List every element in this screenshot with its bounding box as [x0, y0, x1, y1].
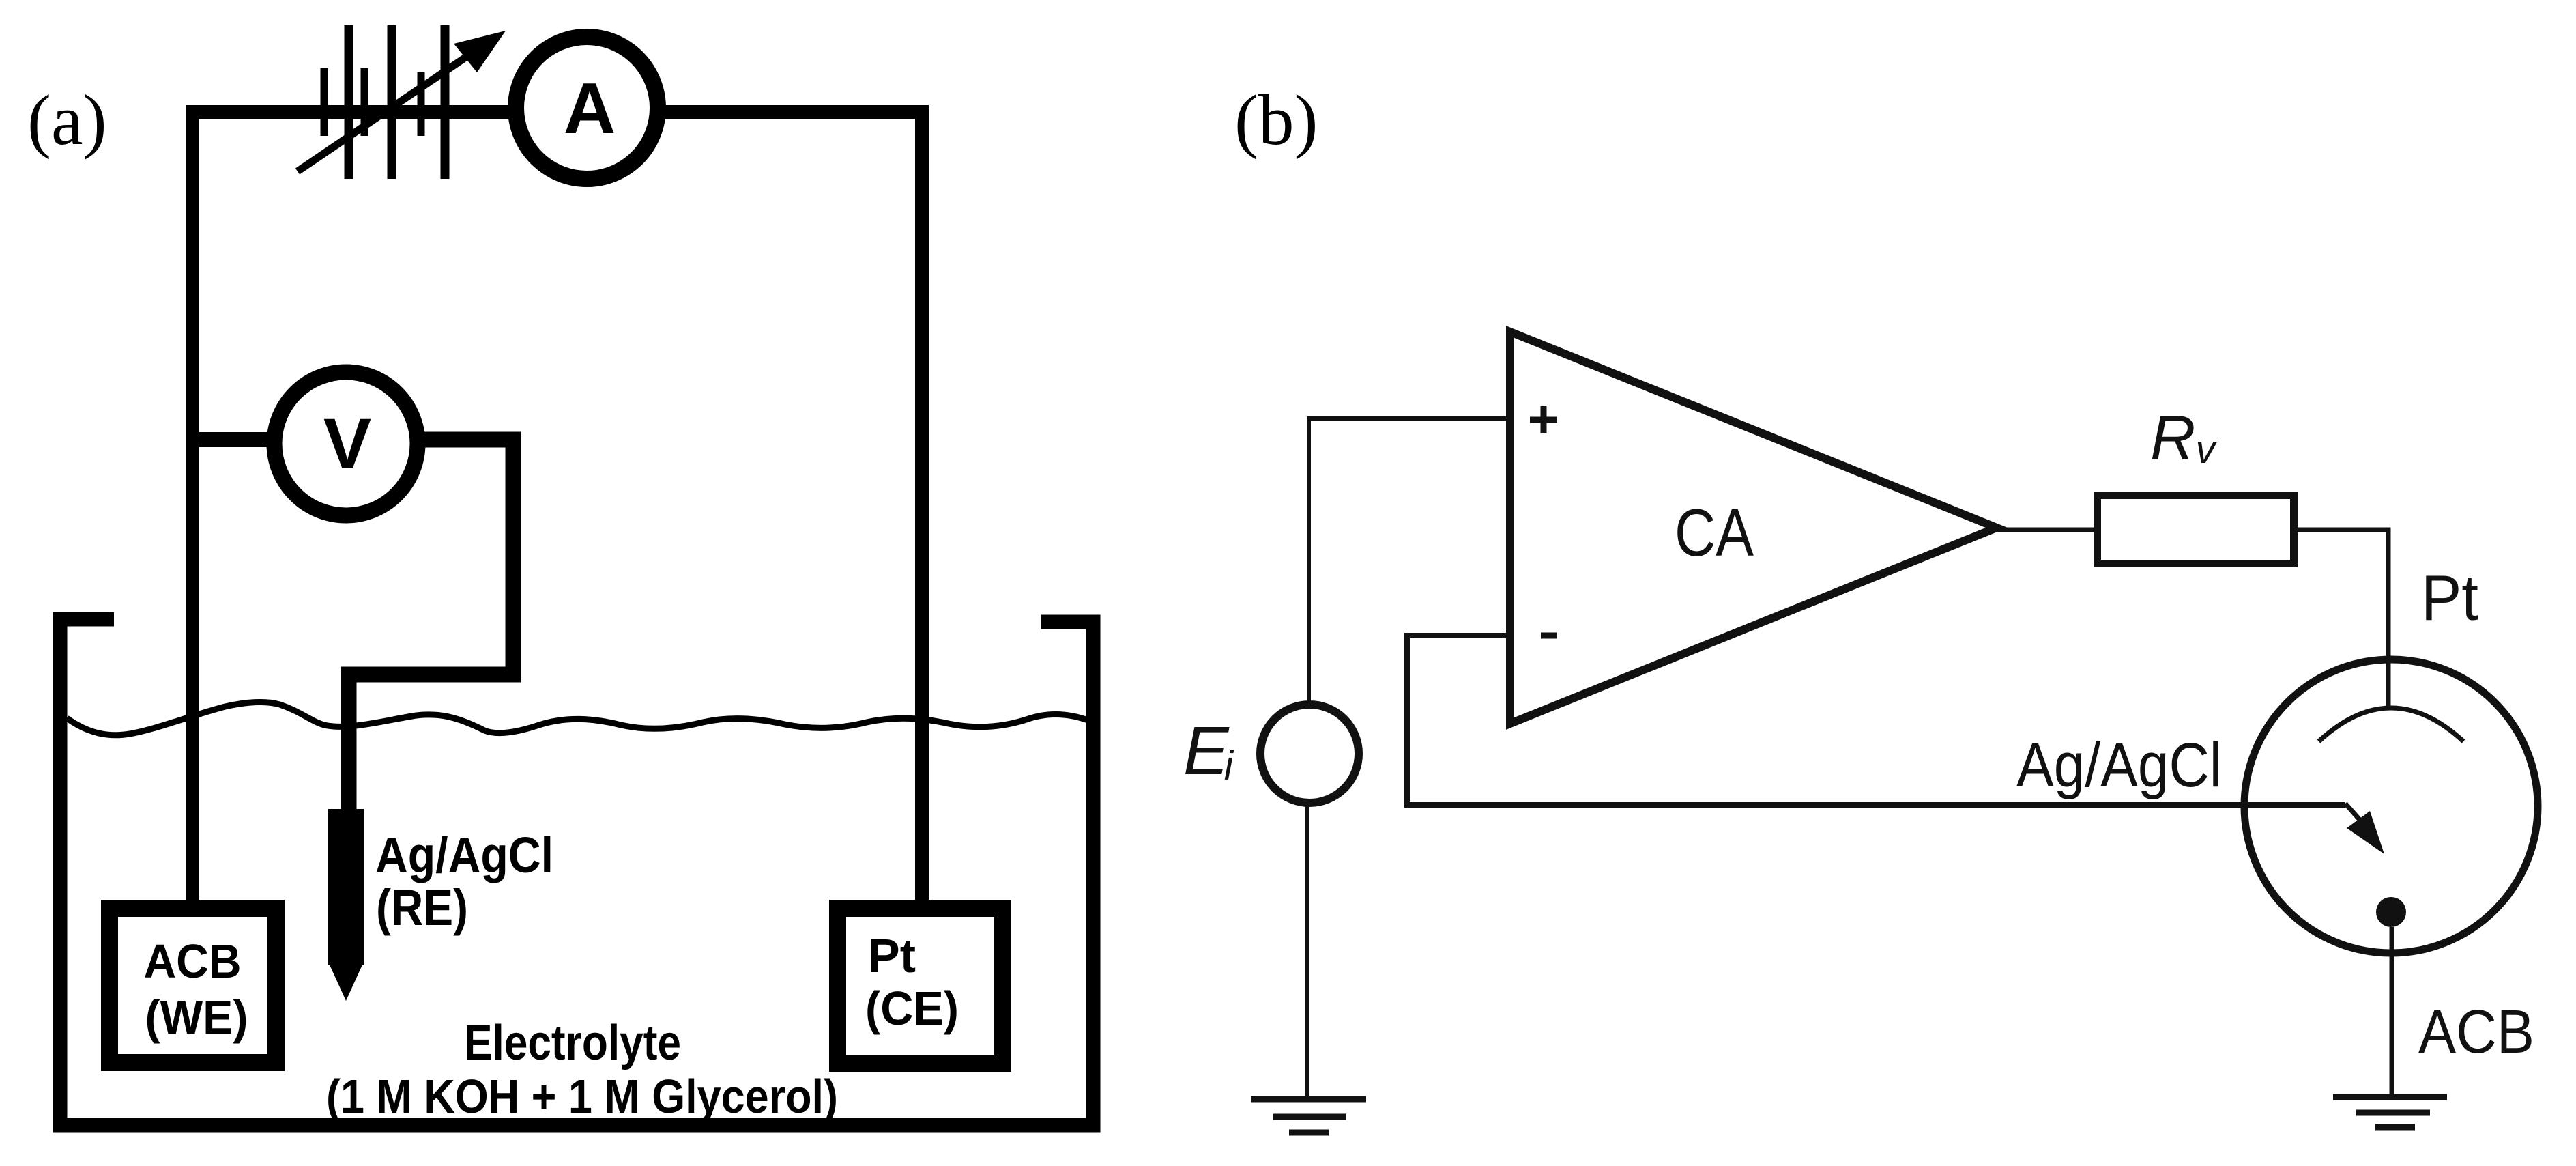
- svg-text:(WE): (WE): [145, 991, 248, 1044]
- op-amp U1 CA: [1510, 332, 1997, 724]
- cell circle: [2244, 659, 2538, 953]
- svg-text:(CE): (CE): [865, 982, 959, 1035]
- wire top horizontal (battery branch): [186, 105, 922, 119]
- svg-text:ACB: ACB: [144, 935, 242, 988]
- svg-text:(1 M KOH + 1 M Glycerol): (1 M KOH + 1 M Glycerol): [326, 1070, 838, 1123]
- ammeter A: [516, 37, 658, 179]
- svg-text:CA: CA: [1675, 495, 1754, 570]
- svg-text:Electrolyte: Electrolyte: [464, 1016, 681, 1070]
- battery B1 (variable source): [324, 25, 445, 179]
- wire voltmeter to RE lead: [346, 440, 513, 816]
- counter electrode box Pt (CE): [838, 909, 1003, 1064]
- voltmeter V: [274, 372, 418, 515]
- svg-text:(b): (b): [1234, 80, 1318, 160]
- svg-text:V: V: [323, 404, 371, 484]
- wire resistor to Pt electrode: [2298, 530, 2388, 710]
- resistor Rv: [2098, 496, 2294, 564]
- svg-text:Pt: Pt: [2421, 562, 2478, 634]
- wire ACB to ground: [2390, 927, 2394, 1097]
- ground (right): [2333, 1094, 2447, 1100]
- wire inverting input / feedback to Ag/AgCl: [1407, 636, 2345, 805]
- wire left vertical (WE lead): [186, 105, 199, 909]
- wire right vertical (CE lead): [915, 105, 929, 908]
- wire noninverting input: [1309, 418, 1506, 704]
- ground (left): [1251, 1096, 1366, 1103]
- svg-text:Ag/AgCl: Ag/AgCl: [375, 827, 553, 883]
- svg-text:Ag/AgCl: Ag/AgCl: [2016, 730, 2222, 800]
- wire Ei to ground: [1305, 803, 1309, 1099]
- svg-text:Pt: Pt: [868, 929, 916, 982]
- feedback arrow into cell: [2345, 804, 2361, 821]
- svg-text:ACB: ACB: [2418, 998, 2534, 1066]
- Pt electrode arc inside cell: [2319, 708, 2463, 741]
- wire voltmeter branch left: [186, 432, 346, 447]
- svg-text:(RE): (RE): [376, 879, 468, 936]
- working electrode box ACB (WE): [110, 909, 276, 1063]
- reference electrode RE body: [328, 809, 364, 965]
- op-amp minus input mark: [1541, 633, 1557, 639]
- svg-text:A: A: [564, 68, 616, 149]
- node ACB dot: [2376, 897, 2406, 927]
- electrolyte water line: [67, 702, 1090, 735]
- wire op-amp output: [1997, 528, 2094, 532]
- beaker: [60, 619, 1093, 1125]
- svg-text:(a): (a): [27, 80, 107, 160]
- battery variable arrow: [298, 49, 478, 171]
- source Ei: [1260, 705, 1359, 803]
- svg-text:Ei: Ei: [1183, 713, 1234, 789]
- op-amp plus input mark: [1530, 417, 1557, 423]
